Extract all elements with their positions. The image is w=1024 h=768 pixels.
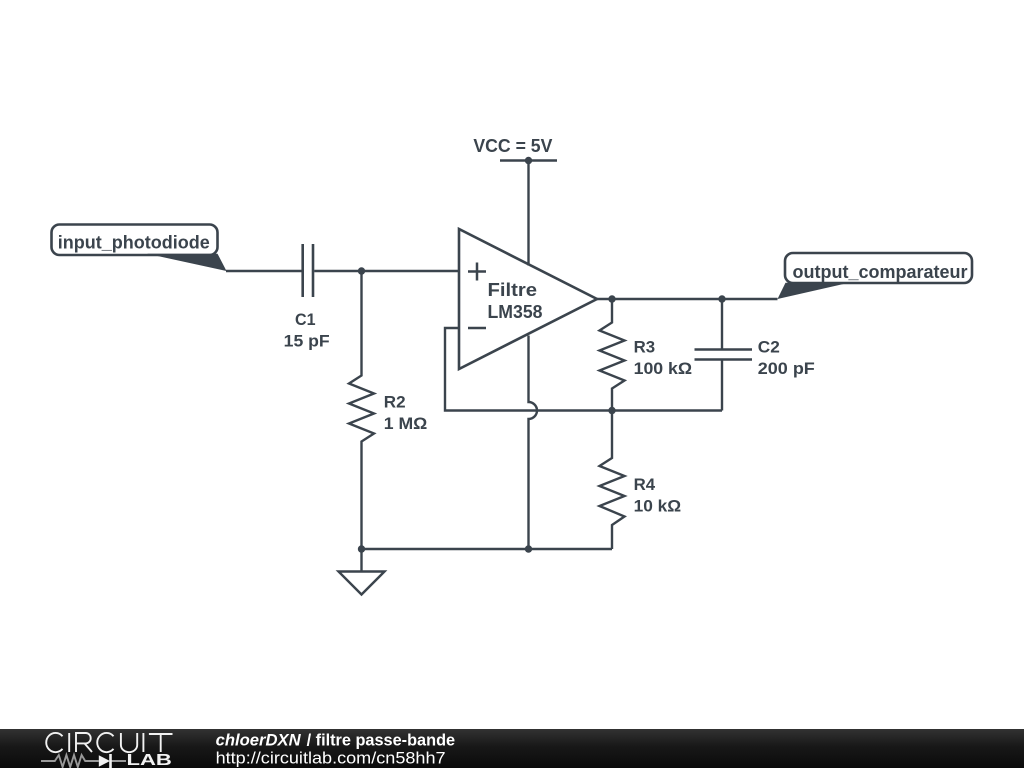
CircuitLab logo diode bar [109,754,112,768]
CircuitLab logo resistor wire [41,755,126,767]
svg-text:Filtre: Filtre [488,280,538,300]
capacitor C2 bottom plate [695,358,753,361]
op-amp - input symbol [468,327,486,330]
svg-text:200 pF: 200 pF [758,359,815,378]
net flag output_comparateur tail [778,283,850,299]
VCC supply bar [500,159,557,162]
net flag input_photodiode box [52,225,218,256]
op-amp U1 triangle [459,229,597,369]
CircuitLab logo CIRCUIT wordmark [46,733,172,752]
svg-text:VCC = 5V: VCC = 5V [473,136,552,156]
svg-text:C2: C2 [758,338,780,357]
wire C1 to op-amp + input [314,270,459,272]
svg-text:input_photodiode: input_photodiode [58,233,210,253]
junction node ground/op-amp V- pin [525,545,532,552]
ground symbol [339,549,385,595]
resistor R2 [349,271,374,549]
op-amp + input symbol [468,263,486,281]
svg-text:R4: R4 [634,475,656,494]
capacitor C1 right plate [312,244,315,297]
svg-text:1 MΩ: 1 MΩ [384,414,428,433]
svg-text:LM358: LM358 [488,302,543,322]
capacitor C2 top lead [721,299,723,349]
CircuitLab logo diode [99,755,110,767]
junction node output/R3 [608,295,615,302]
junction node C1/R2 [358,267,365,274]
capacitor C1 left plate [301,244,304,297]
junction node feedback/R3/R4 [608,407,615,414]
capacitor C2 top plate [695,348,753,351]
svg-text:15 pF: 15 pF [284,332,330,351]
wire op-amp V- pin to ground with hop [529,336,538,550]
svg-text:100 kΩ: 100 kΩ [634,359,693,378]
svg-text:R2: R2 [384,393,406,412]
svg-text:LAB: LAB [127,752,172,768]
svg-text:output_comparateur: output_comparateur [793,262,968,282]
footer bar [0,729,1024,768]
wire op-amp output [597,298,778,300]
resistor R4 [600,411,625,550]
net flag output_comparateur box [785,253,972,283]
svg-text:C1: C1 [295,310,316,329]
svg-text:10 kΩ: 10 kΩ [634,497,682,516]
resistor R3 [600,299,625,411]
svg-text:R3: R3 [634,338,656,357]
svg-text:http://circuitlab.com/cn58hh7: http://circuitlab.com/cn58hh7 [216,749,446,768]
wire VCC to op-amp V+ pin [527,161,529,266]
wire op-amp - input feedback stub [445,328,722,411]
ground rail wire [362,548,613,550]
junction node ground/R2 [358,545,365,552]
VCC node dot [525,157,532,164]
net flag input_photodiode tail [147,254,227,271]
junction node output/C2 [718,295,725,302]
capacitor C2 bottom lead [721,360,723,411]
wire input to C1 [226,270,302,272]
svg-text:/ filtre passe-bande: / filtre passe-bande [307,731,456,750]
svg-text:chloerDXN: chloerDXN [216,731,302,750]
